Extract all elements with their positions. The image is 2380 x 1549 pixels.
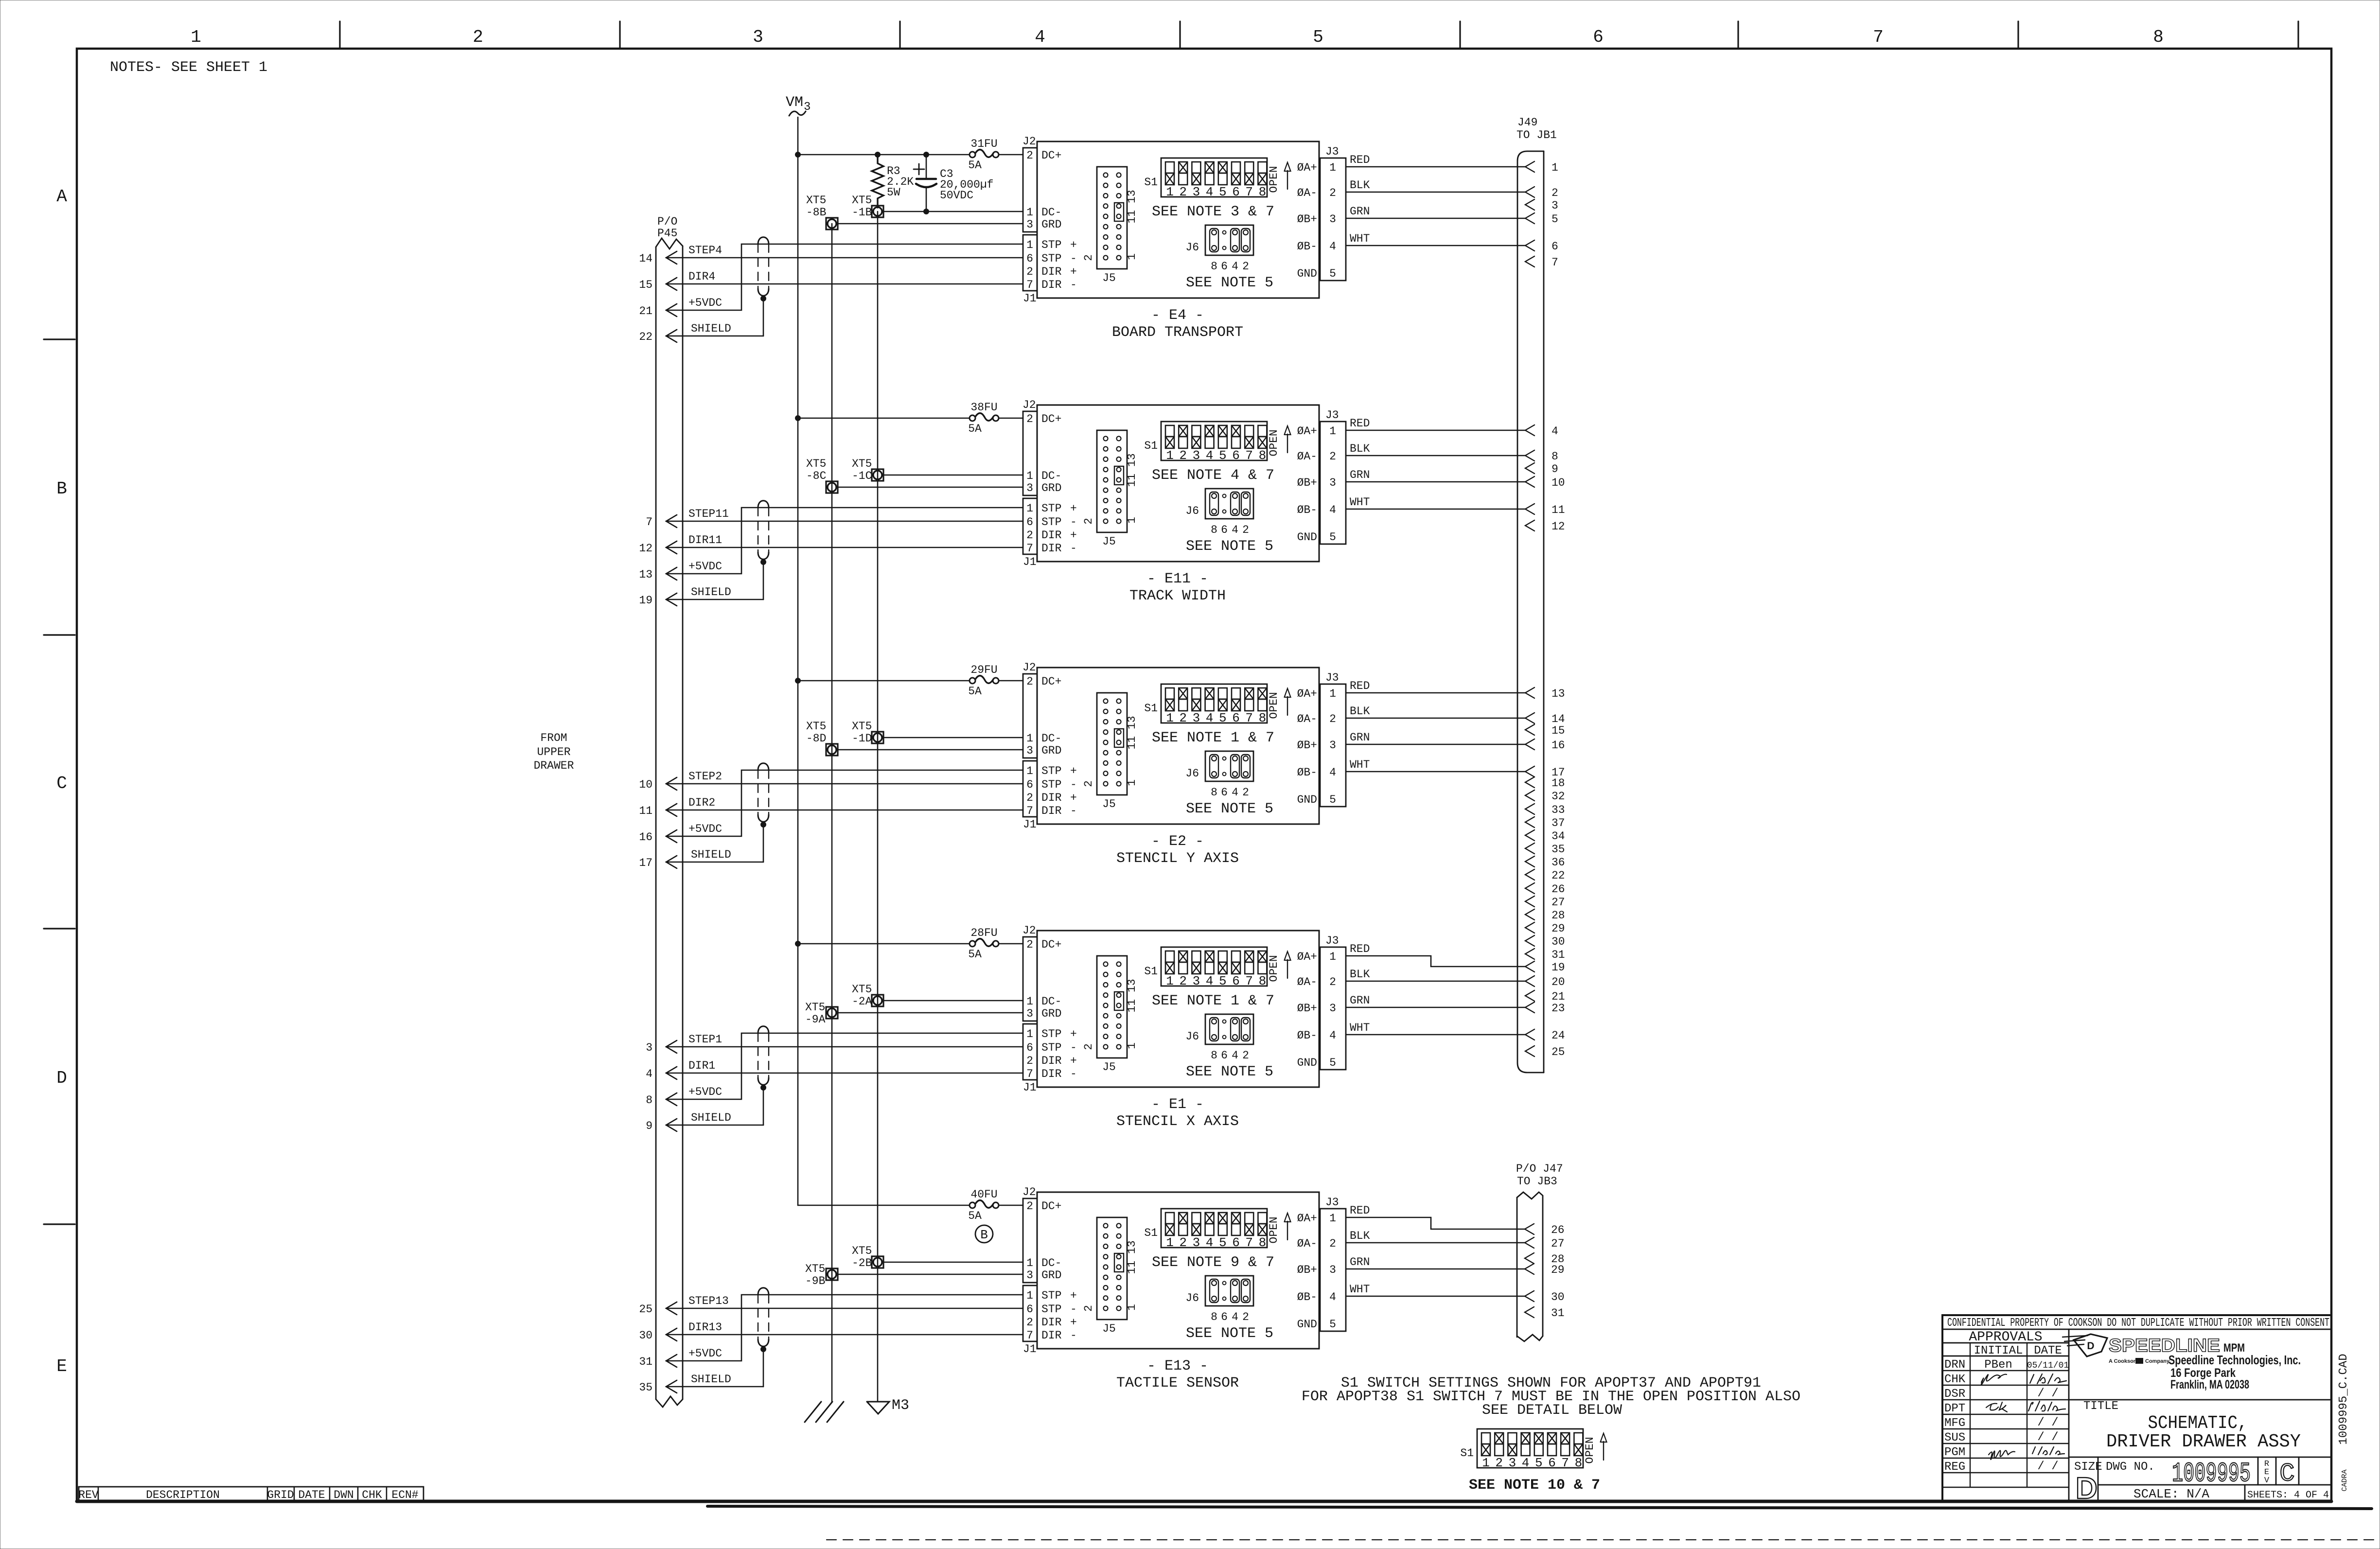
svg-text:TITLE: TITLE (2083, 1400, 2118, 1413)
J6 jumper slot (1241, 755, 1250, 778)
svg-text:J2: J2 (1023, 924, 1036, 937)
svg-text:6: 6 (1221, 524, 1228, 536)
svg-text:3: 3 (1329, 1264, 1336, 1276)
svg-text:Franklin, MA 02038: Franklin, MA 02038 (2170, 1378, 2249, 1391)
S1 position 1 bottom box (1165, 962, 1174, 974)
S1 position 3 X mark (bottom/closed) (1508, 1444, 1516, 1456)
S1 position 2 bottom box (1179, 173, 1187, 185)
svg-text:5A: 5A (968, 1210, 982, 1222)
S1 position 5 top box (1218, 425, 1227, 437)
svg-text:DRN: DRN (1944, 1358, 1965, 1372)
S1 position 5 bottom box (1218, 437, 1227, 448)
svg-text:GRN: GRN (1350, 731, 1370, 744)
svg-text:2: 2 (1551, 187, 1558, 199)
S1 position 7 top box (1245, 425, 1253, 437)
S1 position 2 top box (1179, 162, 1187, 173)
S1 position 6 X mark (bottom/closed) (1232, 173, 1240, 185)
svg-text:6: 6 (1232, 448, 1240, 463)
S1 position 2 X mark (top/open) (1495, 1433, 1503, 1444)
svg-text:1: 1 (1329, 687, 1336, 700)
S1 position 1 X mark (bottom/closed) (1481, 1444, 1490, 1456)
svg-text:2: 2 (1329, 1237, 1336, 1250)
svg-text:DRIVER DRAWER ASSY: DRIVER DRAWER ASSY (2106, 1431, 2301, 1452)
svg-text:14: 14 (639, 252, 652, 265)
svg-text:MFG: MFG (1944, 1417, 1965, 1430)
switch S1 outer box (1161, 684, 1267, 723)
S1 position 8 bottom box (1258, 173, 1267, 185)
CHK signature (1981, 1374, 2007, 1385)
connector J2 of E13 (1023, 1198, 1037, 1283)
fuse 38FU 5A (970, 415, 975, 421)
wire: -1B terminal to J2 pin 1 (DC-) (883, 211, 1023, 212)
REV cell (2257, 1457, 2259, 1485)
J6 jumper slot (1210, 1018, 1218, 1041)
svg-text:8: 8 (1259, 1235, 1267, 1250)
wire: DC+ feed bus for E11 (798, 418, 970, 419)
J49 pin 36 arrow (1525, 856, 1534, 867)
connector J1 of E1 (1023, 1024, 1037, 1080)
svg-text:6: 6 (1548, 1456, 1556, 1470)
svg-text:3: 3 (1193, 185, 1200, 199)
wire: SHIELD to P45 (666, 599, 763, 600)
S1 position 4 bottom box (1521, 1444, 1530, 1456)
S1 position 3 bottom box (1192, 437, 1200, 448)
svg-text:SHIELD: SHIELD (691, 1373, 731, 1386)
svg-text:S1: S1 (1144, 702, 1158, 715)
svg-text:-8D: -8D (806, 732, 826, 745)
svg-text:4: 4 (1232, 524, 1238, 536)
J47 pin 26 arrow (1525, 1224, 1534, 1234)
svg-text:XT5: XT5 (806, 720, 826, 733)
svg-text:ØB-: ØB- (1297, 504, 1317, 516)
C3 polarity plus sign (914, 169, 924, 170)
svg-text:SEE NOTE 4 & 7: SEE NOTE 4 & 7 (1152, 467, 1274, 484)
svg-text:SEE NOTE 5: SEE NOTE 5 (1186, 1064, 1273, 1080)
svg-text:11 13: 11 13 (1126, 453, 1138, 487)
wire: SHIELD to P45 (666, 335, 763, 337)
J47 pin 30 arrow (1525, 1291, 1534, 1302)
S1 position 5 top box (1218, 162, 1227, 173)
svg-text:XT5: XT5 (852, 983, 872, 996)
svg-text:GND: GND (1297, 1056, 1317, 1069)
svg-text:STEP4: STEP4 (688, 244, 722, 257)
J6 jumper slot (1231, 755, 1239, 778)
svg-text:3: 3 (1026, 218, 1033, 231)
svg-text:D: D (2076, 1472, 2098, 1505)
switch S1 outer box (1161, 158, 1267, 197)
P45 top break symbol (656, 238, 683, 249)
wire: STEP1 to J1 pin 6 (STP-) (666, 1046, 1023, 1048)
J5 pins 11/13 highlight box (1114, 1253, 1124, 1272)
svg-text:OPEN: OPEN (1268, 692, 1280, 719)
svg-text:2: 2 (1082, 254, 1095, 261)
svg-text:21: 21 (639, 305, 652, 317)
P45 pin 4 arrow (DIR1) (666, 1067, 677, 1079)
connector J1 of E13 (1023, 1285, 1037, 1341)
S1 position 5 X mark (bottom/closed) (1218, 962, 1227, 974)
svg-text:+: + (1070, 792, 1077, 804)
chassis ground symbol (GRD bus) (805, 1402, 821, 1422)
svg-text:11 13: 11 13 (1126, 190, 1138, 223)
svg-text:ØA-: ØA- (1297, 1237, 1317, 1250)
J49 pin 27 arrow (1525, 896, 1534, 907)
J49 pin 18 arrow (1525, 777, 1534, 788)
svg-text:SEE NOTE 1 & 7: SEE NOTE 1 & 7 (1152, 730, 1274, 746)
svg-text:11 13: 11 13 (1126, 716, 1138, 749)
svg-text:3: 3 (1509, 1456, 1516, 1470)
svg-text:DIR2: DIR2 (688, 796, 715, 809)
svg-text:5: 5 (1313, 27, 1323, 47)
svg-text:DIR: DIR (1041, 805, 1062, 817)
terminal XT5-8C (GRD) (826, 481, 838, 493)
svg-text:J5: J5 (1102, 272, 1116, 284)
J49 pin 7 arrow (1525, 256, 1534, 267)
svg-text:2: 2 (1495, 1456, 1503, 1470)
node: VM3 bus tap dot (E11) (795, 415, 801, 421)
connector J2 of E11 (1023, 411, 1037, 495)
svg-text:13: 13 (639, 568, 652, 581)
svg-text:5A: 5A (968, 685, 982, 698)
svg-text:P/O: P/O (657, 215, 677, 228)
S1 position 5 bottom box (1218, 699, 1227, 711)
svg-text:1: 1 (1026, 502, 1033, 515)
J6 jumper slot (1210, 755, 1218, 778)
zone column ticks (top) (339, 21, 340, 49)
svg-text:1: 1 (1329, 425, 1336, 438)
J6 jumper slot (1241, 1279, 1250, 1303)
svg-text:2: 2 (1026, 529, 1033, 542)
svg-text:STEP11: STEP11 (688, 508, 729, 520)
connector J3 of E4 (1320, 158, 1346, 281)
svg-text:DIR: DIR (1041, 279, 1062, 291)
svg-text:5: 5 (1329, 1056, 1336, 1069)
svg-text:4: 4 (646, 1068, 652, 1080)
svg-text:29: 29 (1551, 1264, 1565, 1276)
connector J3 of E13 (1320, 1209, 1346, 1331)
svg-text:RED: RED (1350, 417, 1370, 430)
J49 pin 23 arrow (1525, 1002, 1534, 1013)
svg-text:S1: S1 (1144, 1227, 1158, 1239)
svg-text:8: 8 (1211, 260, 1217, 273)
svg-text:1: 1 (1026, 1257, 1033, 1269)
svg-text:3: 3 (1329, 1002, 1336, 1015)
svg-text:ØA+: ØA+ (1297, 1212, 1317, 1225)
svg-text:+: + (1070, 502, 1077, 515)
fuse 31FU 5A (970, 152, 975, 158)
S1 position 3 X mark (bottom/closed) (1192, 437, 1200, 448)
J49 pin 12 arrow (1525, 520, 1534, 531)
svg-text:6: 6 (1593, 27, 1604, 47)
wire: SHIELD to P45 (666, 862, 763, 863)
svg-text:13: 13 (1551, 687, 1565, 700)
S1 OPEN arrow (1287, 434, 1288, 453)
svg-text:2: 2 (473, 27, 483, 47)
S1 position 6 X mark (top/open) (1232, 425, 1240, 437)
svg-text:7: 7 (1245, 1235, 1253, 1250)
J49 pin 16 arrow (1525, 739, 1534, 750)
svg-text:7: 7 (1873, 27, 1884, 47)
svg-text:5: 5 (1219, 1235, 1227, 1250)
svg-text:TO JB1: TO JB1 (1516, 129, 1557, 141)
wire: DIR2 to J1 pin 7 (DIR-) (666, 810, 1023, 811)
svg-text:DIR: DIR (1041, 1329, 1062, 1342)
S1 position 7 bottom box (1561, 1444, 1569, 1456)
P45 pin 31 arrow (+5VDC) (666, 1355, 677, 1367)
svg-text:7: 7 (1245, 448, 1253, 463)
svg-text:1: 1 (1026, 470, 1033, 482)
company logo emblem (2074, 1334, 2107, 1356)
svg-text:PGM: PGM (1944, 1446, 1965, 1459)
S1 position 5 top box (1218, 688, 1227, 699)
svg-text:- E11 -: - E11 - (1147, 571, 1208, 587)
svg-text:1: 1 (1126, 253, 1138, 260)
svg-text:11 13: 11 13 (1126, 1240, 1138, 1274)
svg-text:APPROVALS: APPROVALS (1969, 1330, 2042, 1345)
svg-text:ØB-: ØB- (1297, 1029, 1317, 1042)
svg-text:6: 6 (1232, 711, 1240, 725)
node: C3 / DC- junction dot (923, 209, 929, 214)
svg-text:1: 1 (1166, 448, 1174, 463)
svg-text:OPEN: OPEN (1268, 955, 1280, 982)
S1 position 1 X mark (bottom/closed) (1165, 962, 1174, 974)
svg-text:7: 7 (1026, 805, 1033, 817)
svg-text:5A: 5A (968, 948, 982, 961)
svg-text:2: 2 (1329, 187, 1336, 199)
wire: shield stem (763, 299, 764, 336)
svg-text:ØB+: ØB+ (1297, 476, 1317, 489)
svg-text:NOTES- SEE SHEET 1: NOTES- SEE SHEET 1 (110, 59, 267, 76)
svg-text:GRN: GRN (1350, 469, 1370, 481)
svg-text:4: 4 (1551, 425, 1558, 438)
J49 pin 1 arrow (1525, 161, 1534, 172)
svg-text:ØB+: ØB+ (1297, 739, 1317, 752)
svg-text:22: 22 (1551, 869, 1565, 882)
svg-text:6: 6 (1026, 1041, 1033, 1054)
svg-text:1: 1 (1329, 951, 1336, 963)
wire: -1C terminal to J2 pin 1 (DC-) (883, 475, 1023, 476)
S1 position 1 X mark (bottom/closed) (1165, 699, 1174, 711)
svg-text:GRID: GRID (267, 1489, 294, 1501)
svg-text:J5: J5 (1102, 1061, 1116, 1074)
svg-text:31: 31 (1551, 1307, 1565, 1320)
S1 position 6 bottom box (1232, 173, 1240, 185)
bottom scan artifact line (707, 1506, 2372, 1509)
svg-text:5: 5 (1329, 267, 1336, 280)
svg-text:ØA-: ØA- (1297, 187, 1317, 199)
S1 position 6 top box (1232, 1213, 1240, 1224)
svg-text:3: 3 (753, 27, 763, 47)
svg-text:-2B: -2B (852, 1257, 872, 1269)
svg-text:31FU: 31FU (970, 138, 997, 150)
connector J3 of E1 (1320, 947, 1346, 1070)
svg-text:GRN: GRN (1350, 994, 1370, 1007)
module E1 body box (1037, 931, 1319, 1087)
S1 position 5 bottom box (1218, 1224, 1227, 1235)
svg-text:4: 4 (1206, 185, 1214, 199)
svg-text:DC+: DC+ (1041, 675, 1061, 688)
svg-text:J49: J49 (1517, 116, 1537, 129)
svg-text:2: 2 (1026, 149, 1033, 162)
svg-text:1: 1 (1026, 1289, 1033, 1302)
svg-text:7: 7 (1245, 711, 1253, 725)
S1 position 2 bottom box (1179, 437, 1187, 448)
S1 position 7 bottom box (1245, 699, 1253, 711)
svg-text:11 13: 11 13 (1126, 979, 1138, 1012)
svg-text:2: 2 (1082, 1043, 1095, 1050)
P45 pin 30 arrow (DIR13) (666, 1328, 677, 1341)
wire: DC- vertical bus x=1805 (877, 211, 879, 1402)
wire: fuse to J2 pin 2 (999, 1205, 1023, 1206)
svg-text:5A: 5A (968, 422, 982, 435)
svg-text:33: 33 (1551, 804, 1565, 816)
svg-text:DPT: DPT (1944, 1402, 1965, 1415)
S1 position 8 top box (1258, 951, 1267, 962)
S1 position 1 top box (1165, 951, 1174, 962)
svg-text:GRN: GRN (1350, 1256, 1370, 1268)
svg-text:2: 2 (1179, 1235, 1187, 1250)
node: shield junction dot (760, 1085, 766, 1091)
svg-text:+: + (1070, 1316, 1077, 1329)
svg-text:27: 27 (1551, 1237, 1565, 1250)
svg-text:DIR1: DIR1 (688, 1059, 715, 1072)
svg-text:STP: STP (1041, 502, 1061, 515)
wire: DIR11 to J1 pin 7 (DIR-) (666, 547, 1023, 548)
svg-text:RED: RED (1350, 680, 1370, 692)
svg-text:ØB-: ØB- (1297, 1291, 1317, 1303)
svg-text:M3: M3 (892, 1397, 909, 1414)
S1 position 7 bottom box (1245, 173, 1253, 185)
S1 position 4 bottom box (1205, 962, 1214, 974)
svg-text:DWG NO.: DWG NO. (2106, 1461, 2155, 1474)
wire: fuse to J2 pin 2 (999, 154, 1023, 156)
svg-text:11: 11 (639, 805, 652, 817)
svg-text:5: 5 (1535, 1456, 1543, 1470)
svg-text:2: 2 (1242, 1311, 1249, 1323)
svg-text:CHK: CHK (362, 1489, 382, 1501)
svg-text:/ /: / / (2037, 1431, 2058, 1444)
svg-text:8: 8 (1211, 786, 1217, 799)
S1 position 7 X mark (bottom/closed) (1245, 173, 1253, 185)
svg-text:29: 29 (1551, 922, 1565, 935)
svg-text:6: 6 (1221, 1311, 1228, 1323)
wire: -2B terminal to J2 pin 1 (DC-) (883, 1262, 1023, 1263)
svg-text:WHT: WHT (1350, 232, 1370, 245)
svg-text:DC+: DC+ (1041, 938, 1061, 951)
S1 position 1 top box (1165, 425, 1174, 437)
svg-text:J2: J2 (1023, 399, 1036, 411)
P45 pin 16 arrow (+5VDC) (666, 830, 677, 843)
J49 pin 33 arrow (1525, 804, 1534, 814)
svg-text:25: 25 (639, 1303, 652, 1316)
bottom faint dotted scan artifact (827, 1539, 2378, 1540)
svg-text:3: 3 (1026, 1007, 1033, 1020)
svg-text:26: 26 (1551, 883, 1565, 896)
svg-text:-: - (1070, 1068, 1077, 1080)
J49 pin 34 arrow (1525, 830, 1534, 841)
S1 position 4 bottom box (1205, 1224, 1214, 1235)
svg-text:1: 1 (1026, 995, 1033, 1008)
svg-text:BLK: BLK (1350, 1230, 1370, 1242)
svg-text:1: 1 (1329, 1212, 1336, 1225)
J49 pin 19 arrow (1525, 961, 1534, 972)
J47 pin 28 arrow (1525, 1253, 1534, 1264)
svg-text:3: 3 (1193, 448, 1200, 463)
J49 pin 25 arrow (1525, 1046, 1534, 1056)
wire: VM3 vertical bus x=1641 (797, 117, 799, 1205)
J6 jumper slot (1231, 1018, 1239, 1041)
svg-text:-1D: -1D (852, 732, 872, 745)
svg-text:-2A: -2A (852, 995, 872, 1008)
wire: DIR13 to J1 pin 7 (DIR-) (666, 1334, 1023, 1336)
svg-text:4: 4 (1232, 1311, 1238, 1323)
J49 pin 6 arrow (1525, 240, 1534, 251)
svg-text:DC-: DC- (1041, 1257, 1061, 1269)
svg-text:J6: J6 (1185, 767, 1199, 780)
svg-text:24: 24 (1551, 1029, 1565, 1042)
S1 position 4 X mark (top/open) (1205, 162, 1214, 173)
svg-text:GRD: GRD (1041, 744, 1061, 757)
svg-text:1: 1 (1551, 161, 1558, 174)
revision history strip (79, 1487, 423, 1501)
svg-text:5: 5 (1219, 448, 1227, 463)
svg-text:6: 6 (1026, 778, 1033, 791)
svg-text:4: 4 (1232, 786, 1238, 799)
svg-text:2: 2 (1179, 711, 1187, 725)
S1 position 3 bottom box (1192, 1224, 1200, 1235)
svg-text:SCHEMATIC,: SCHEMATIC, (2148, 1413, 2248, 1434)
S1 OPEN arrow (1287, 171, 1288, 189)
svg-text:+: + (1070, 239, 1077, 251)
wire: -1D terminal to J2 pin 1 (DC-) (883, 737, 1023, 739)
terminal XT5-2B (DC-) (872, 1256, 883, 1268)
svg-text:3: 3 (1329, 213, 1336, 226)
svg-text:1: 1 (1126, 1042, 1138, 1049)
connector J3 of E11 (1320, 422, 1346, 544)
capacitor C3 20,000uf 50VDC (926, 155, 927, 178)
approvals rows (1942, 1370, 2069, 1371)
J6 open position pins (1223, 1020, 1226, 1023)
svg-text:DIR4: DIR4 (688, 270, 715, 283)
S1 position 3 top box (1192, 951, 1200, 962)
J6 jumper slot (1231, 229, 1239, 252)
svg-text:+5VDC: +5VDC (688, 1086, 722, 1098)
S1 position 3 bottom box (1192, 962, 1200, 974)
wire: E11 RED to J49 pin 4 (1346, 430, 1525, 431)
svg-text:SHEETS: 4 OF 4: SHEETS: 4 OF 4 (2247, 1490, 2329, 1501)
svg-text:STEP13: STEP13 (688, 1295, 729, 1307)
wire: shield stem (763, 1349, 764, 1387)
svg-text:P45: P45 (657, 227, 677, 240)
S1 position 1 bottom box (1165, 437, 1174, 448)
svg-text:DIR: DIR (1041, 542, 1062, 555)
svg-text:3: 3 (1026, 482, 1033, 494)
S1 position 3 top box (1192, 1213, 1200, 1224)
svg-text:- E2 -: - E2 - (1151, 833, 1204, 850)
svg-text:5: 5 (1551, 213, 1558, 226)
J6 open position pins (1223, 757, 1226, 760)
J49 pin 2 arrow (1525, 187, 1534, 197)
svg-text:- E13 -: - E13 - (1147, 1358, 1208, 1374)
wire: DIR4 to J1 pin 7 (DIR-) (666, 283, 1023, 285)
svg-text:+: + (1070, 529, 1077, 542)
connector J1 of E4 (1023, 235, 1037, 291)
P45 pin 19 arrow (SHIELD) (666, 593, 677, 606)
S1 position 1 bottom box (1165, 699, 1174, 711)
svg-text:J6: J6 (1185, 505, 1199, 517)
svg-text:XT5: XT5 (806, 194, 826, 207)
J49 pin 4 arrow (1525, 425, 1534, 436)
S1 position 4 X mark (top/open) (1205, 425, 1214, 437)
